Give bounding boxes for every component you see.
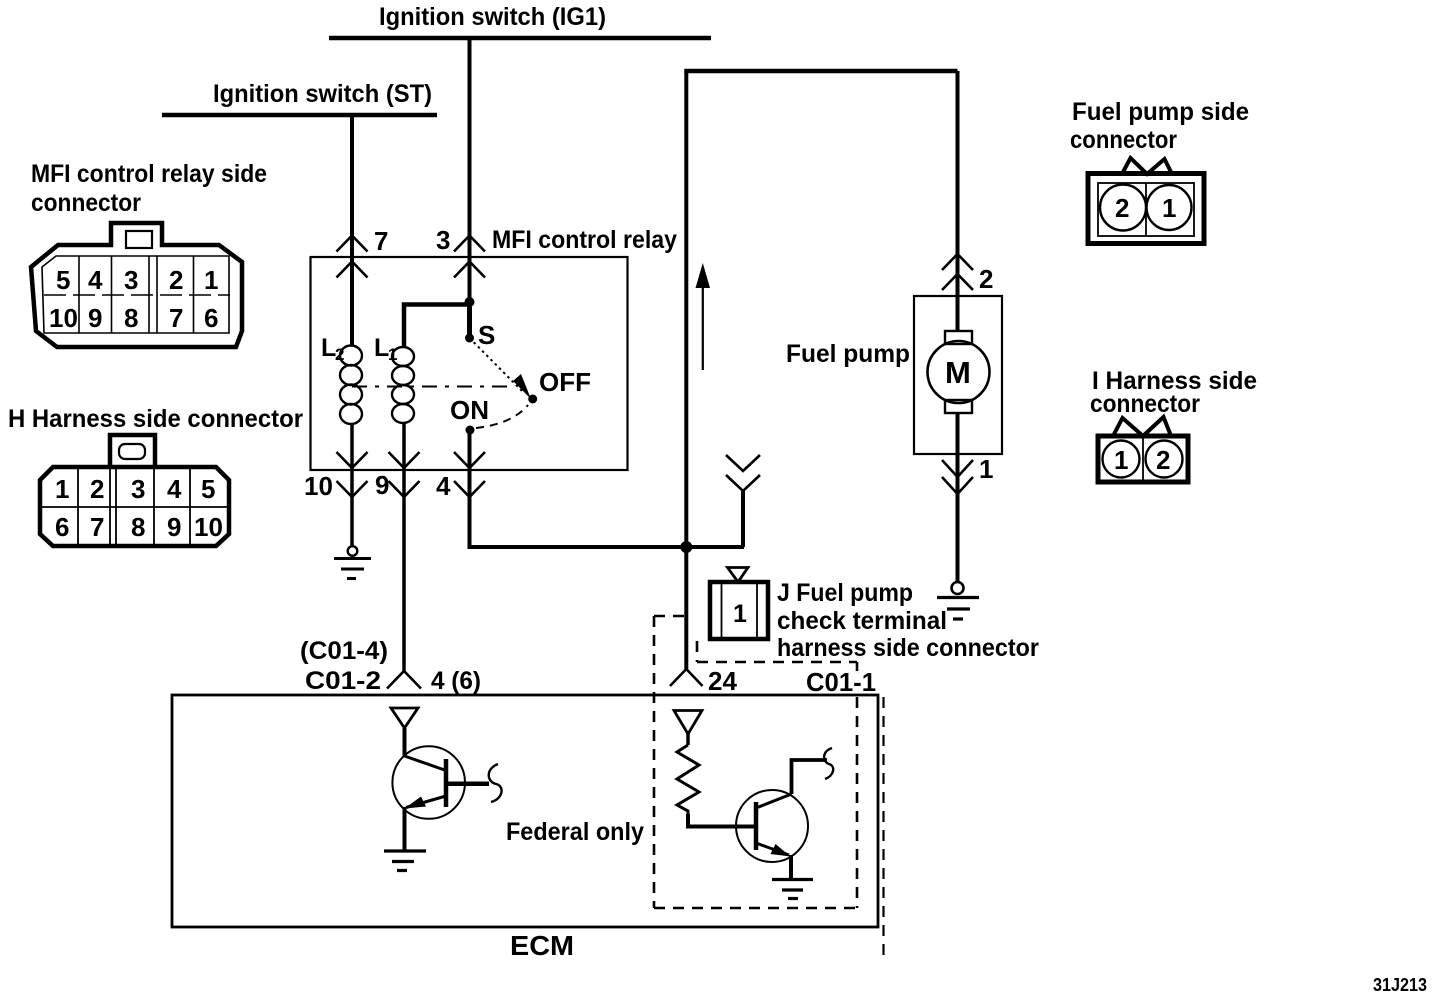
svg-text:8: 8 [131,512,145,542]
svg-text:connector: connector [31,189,141,217]
svg-text:9: 9 [167,512,181,542]
svg-text:4: 4 [436,471,451,501]
svg-text:1: 1 [1114,445,1128,475]
transistor Q2 [736,790,808,862]
svg-text:3: 3 [436,225,450,255]
motor M1 terminal top [945,331,972,344]
wire fuel pump to ground [956,413,960,582]
svg-text:check terminal: check terminal [777,607,947,635]
triangle terminal above resistor R1 [674,711,702,735]
relay K1 MFI control relay box [311,257,628,470]
motor M1 body [928,341,990,403]
wire triangle to resistor R1 [686,734,690,745]
ground Q2 emitter [772,878,813,881]
svg-text:ON: ON [450,395,489,425]
pin 4 (6) connector chevron [387,671,421,689]
svg-text:Federal only: Federal only [506,818,644,846]
connector X4 body [1098,436,1188,482]
svg-text:9: 9 [375,470,389,500]
resistor R1 [677,745,699,814]
wire resistor R1 to transistor Q2 base [688,814,756,827]
svg-text:L: L [374,334,389,362]
wire L1 bottom to ECM pin 4(6) [402,423,406,671]
node S contact [465,334,474,343]
pin 3 connector chevrons [454,236,485,252]
svg-text:MFI control relay: MFI control relay [492,226,677,254]
node junction dot relay coil/switch feed [465,297,475,307]
svg-text:2: 2 [979,264,993,294]
wire Q1 emitter to ground [403,807,407,851]
connector X1 cell dividers [78,256,80,333]
svg-text:6: 6 [204,303,218,333]
wire L2 bottom to ground [350,423,354,546]
current flow arrow [702,285,704,370]
connector X2 tab [110,435,155,467]
triangle terminal above transistor Q1 [391,708,418,728]
svg-text:7: 7 [169,303,183,333]
connector X1 tab inner rect [126,231,152,248]
ground under relay pin 10 [348,546,358,556]
pin 9 connector chevrons [389,452,420,468]
svg-text:6: 6 [55,512,69,542]
connector X3 notches [1122,158,1172,174]
wire ON contact to pin 4 [468,430,472,470]
svg-text:2: 2 [1156,445,1170,475]
svg-text:S: S [478,320,495,350]
connector X2 body outline [40,467,229,546]
svg-text:10: 10 [194,512,223,542]
wire pin 4 down and right to junction [470,470,745,547]
wire ST bus line [162,113,437,118]
svg-text:ECM: ECM [510,930,574,961]
connector X3 body [1088,174,1204,244]
pin 4 connector chevrons [454,452,485,468]
svg-text:M: M [945,355,971,390]
svg-text:31J213: 31J213 [1373,975,1427,995]
svg-text:Fuel pump side: Fuel pump side [1072,98,1249,126]
svg-text:4 (6): 4 (6) [431,667,481,695]
wire main vertical line to ECM pin 24 [684,71,688,669]
connector X4 cavity 2 [1146,441,1183,478]
svg-text:24: 24 [708,666,737,696]
connector X4 notches [1113,417,1171,436]
ECM box [172,695,878,927]
wire Q2 collector squiggle [824,748,833,779]
connector J fuel pump check terminal triangle [728,568,749,583]
svg-text:4: 4 [88,265,103,295]
svg-text:connector: connector [1070,126,1177,154]
svg-text:connector: connector [1090,390,1200,418]
svg-text:OFF: OFF [539,367,591,397]
dashed line right of ECM [882,697,884,958]
svg-text:3: 3 [131,474,145,504]
svg-text:10: 10 [49,303,78,333]
svg-text:MFI control relay side: MFI control relay side [31,160,267,188]
svg-text:harness side connector: harness side connector [777,634,1039,662]
pin 10 connector chevrons [337,452,368,468]
svg-text:2: 2 [1115,193,1129,223]
svg-text:C01-1: C01-1 [806,667,876,697]
wire IG1 bus line [329,36,711,41]
svg-text:1: 1 [55,474,69,504]
svg-text:Ignition switch (ST): Ignition switch (ST) [213,80,432,108]
wire IG1 to relay pin 3 [468,38,472,302]
svg-text:1: 1 [979,454,993,484]
svg-text:10: 10 [304,471,333,501]
svg-text:7: 7 [374,226,388,256]
connector X1 body outline [31,223,242,347]
svg-text:H Harness side connector: H Harness side connector [8,405,303,433]
pin 7 connector chevrons [337,236,368,252]
pin 24 connector chevron [670,669,703,686]
connector X3 cavity 1 [1147,185,1192,230]
svg-text:4: 4 [167,474,182,504]
wire Q2 collector [792,760,828,794]
svg-text:9: 9 [88,303,102,333]
fuel pump box [914,296,1002,454]
connector J fuel pump check terminal box [710,582,768,639]
svg-text:1: 1 [204,265,218,295]
wire junction to S contact [467,302,472,338]
switch blade S to OFF [470,338,524,392]
svg-text:1: 1 [733,600,747,628]
fuel pump pin 2 connector chevrons [942,254,973,270]
wire mechanical link dash-dot [352,386,514,388]
connector X4 cavity 1 [1103,441,1140,478]
connector X2 cell dividers [77,467,79,546]
dashed box C01-1 federal section [654,615,684,618]
svg-text:(C01-4): (C01-4) [300,637,388,665]
wire Q2 emitter to ground [789,855,793,879]
fuel pump pin 1 connector chevrons [942,460,973,477]
svg-text:C01-2: C01-2 [305,667,381,695]
switch travel dashed arc [476,405,528,428]
svg-text:5: 5 [201,474,215,504]
wire L1 elbow [404,305,470,348]
wire ST to relay pin 7 [350,115,354,346]
svg-text:1: 1 [1162,193,1176,223]
wire triangle to Q1 collector [403,728,407,757]
connector X3 cavity 2 [1100,185,1146,231]
svg-text:L: L [321,334,336,362]
connector X1 inner outline [42,256,229,333]
svg-text:7: 7 [90,512,104,542]
transistor Q1 [392,746,465,819]
svg-text:3: 3 [124,265,138,295]
ground fuel pump [952,582,964,594]
svg-text:5: 5 [56,265,70,295]
svg-text:2: 2 [169,265,183,295]
node OFF contact [528,395,537,404]
motor M1 terminal bottom [945,400,972,413]
ground Q1 emitter [384,849,426,852]
node junction dot main line [680,541,692,553]
svg-text:Fuel pump: Fuel pump [786,340,910,368]
svg-text:J Fuel pump: J Fuel pump [777,579,913,607]
wire top horizontal to fuel pump [684,69,957,74]
svg-text:Ignition switch (IG1): Ignition switch (IG1) [379,3,606,31]
wire Q1 base squiggle [489,764,502,802]
wire fuel pump feed vertical [956,71,960,332]
wire stub with connector to diagnosis line [741,491,745,547]
svg-text:2: 2 [90,474,104,504]
svg-text:8: 8 [124,303,138,333]
